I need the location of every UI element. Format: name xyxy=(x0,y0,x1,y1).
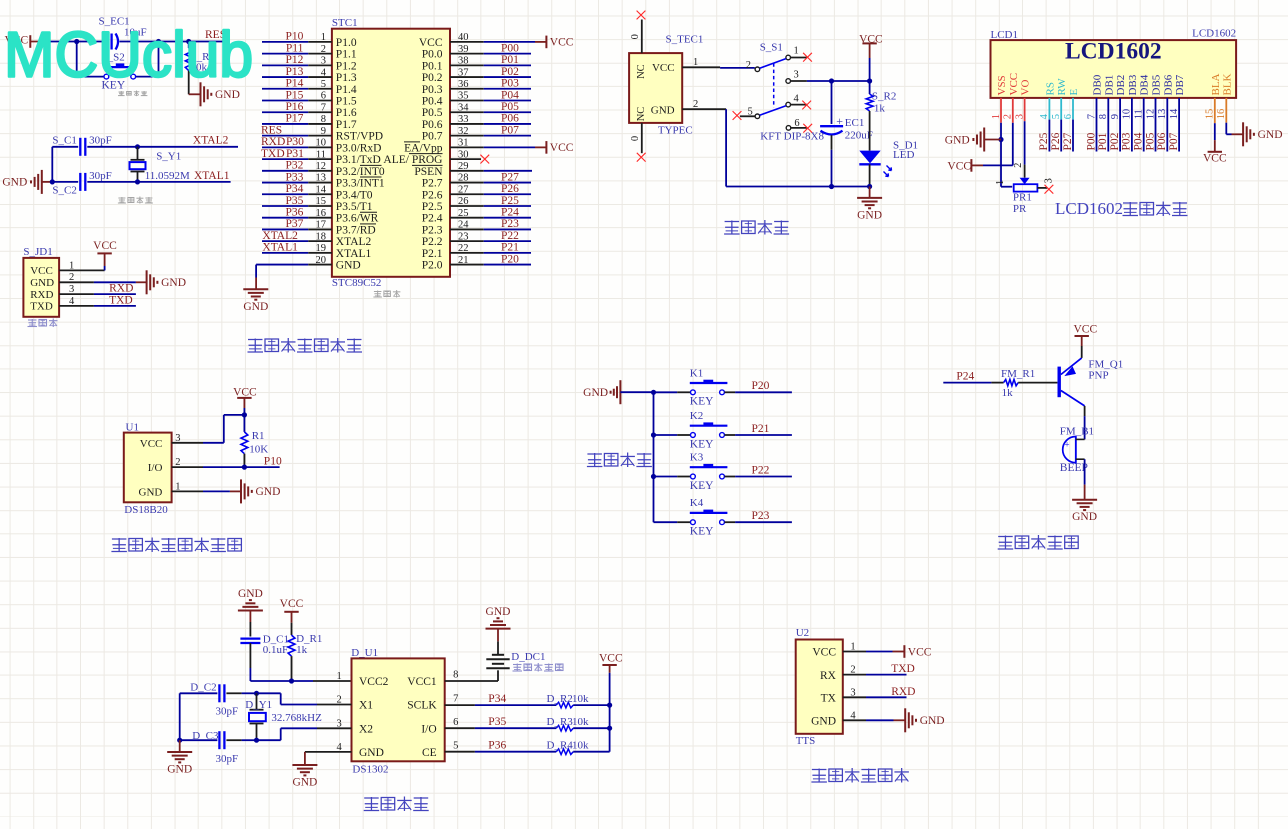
junction crystal bottom xyxy=(135,179,140,184)
svg-text:KEY: KEY xyxy=(690,480,714,492)
pushbutton S_S2 KEY xyxy=(103,66,136,68)
power port VCC (U2) xyxy=(903,645,905,658)
svg-text:K1: K1 xyxy=(690,367,703,379)
svg-text:VCC: VCC xyxy=(599,653,623,665)
no-ERC marker S_S1 pin1 xyxy=(803,53,812,62)
svg-text:P03: P03 xyxy=(501,78,519,90)
svg-text:VCC2: VCC2 xyxy=(359,676,389,688)
svg-text:P2.2: P2.2 xyxy=(422,236,443,248)
svg-text:P3.2/INT0: P3.2/INT0 xyxy=(336,166,385,178)
svg-text:GND: GND xyxy=(336,260,361,272)
svg-text:GND: GND xyxy=(945,134,970,146)
power port VCC (LCD backlight) xyxy=(1208,151,1222,153)
junction EC1 bottom xyxy=(829,184,834,189)
svg-text:6: 6 xyxy=(453,717,458,728)
svg-text:S_JD1: S_JD1 xyxy=(23,246,52,258)
svg-text:0: 0 xyxy=(630,136,641,141)
wire VCC pullup column xyxy=(609,673,611,752)
label 下载口 xyxy=(28,319,37,321)
wire P10 xyxy=(244,466,279,468)
svg-text:30pF: 30pF xyxy=(216,706,239,718)
svg-text:TXD: TXD xyxy=(30,301,53,313)
power port VCC (pin40) xyxy=(545,36,547,49)
svg-text:VCC: VCC xyxy=(550,37,574,49)
svg-text:32.768kHZ: 32.768kHZ xyxy=(271,712,322,724)
pin 4 S_S1 stub xyxy=(791,104,807,106)
wire GND rail xyxy=(725,109,727,186)
svg-text:GND: GND xyxy=(1072,511,1097,523)
svg-text:P02: P02 xyxy=(1109,132,1121,150)
ground GND (reset) xyxy=(200,82,202,106)
svg-text:GND: GND xyxy=(30,277,54,289)
svg-text:P0.5: P0.5 xyxy=(422,107,443,119)
svg-text:P07: P07 xyxy=(1168,132,1180,150)
junction R1 top xyxy=(242,412,247,417)
wire collector to buzzer xyxy=(1084,406,1086,416)
capacitor D_C1 0.1uF xyxy=(240,637,260,639)
svg-text:P2.6: P2.6 xyxy=(422,189,443,201)
pin 3 PR1 stub xyxy=(1037,187,1047,189)
svg-text:P3.3/INT1: P3.3/INT1 xyxy=(336,178,385,190)
svg-text:KFT DIP-8X8: KFT DIP-8X8 xyxy=(760,131,824,143)
svg-text:10k: 10k xyxy=(572,740,589,752)
pin 3 S_S1 xyxy=(786,79,791,84)
svg-text:RST/VPD: RST/VPD xyxy=(336,131,383,143)
svg-text:DS1302: DS1302 xyxy=(352,764,388,776)
wire crystal left vertical xyxy=(51,147,53,182)
svg-text:3: 3 xyxy=(794,69,799,80)
no-ERC marker pin30 xyxy=(480,155,489,164)
svg-text:4: 4 xyxy=(794,94,800,105)
section label 环境温度采集模块 xyxy=(112,538,127,540)
svg-text:K3: K3 xyxy=(690,452,704,464)
pushbutton K4 KEY xyxy=(654,521,678,523)
svg-text:S_C1: S_C1 xyxy=(52,135,76,147)
svg-text:I/O: I/O xyxy=(148,462,163,474)
svg-text:S_R2: S_R2 xyxy=(872,90,896,102)
svg-text:P03: P03 xyxy=(1121,132,1133,150)
svg-text:KEY: KEY xyxy=(690,526,714,538)
svg-text:1: 1 xyxy=(337,671,342,682)
wire LED to rail xyxy=(869,164,871,186)
section label 时钟电路 xyxy=(364,797,379,799)
svg-text:P3.4/T0: P3.4/T0 xyxy=(336,189,373,201)
svg-text:3: 3 xyxy=(337,718,342,729)
svg-text:P10: P10 xyxy=(264,456,282,468)
svg-text:P34: P34 xyxy=(285,183,303,195)
svg-text:DB2: DB2 xyxy=(1115,75,1127,96)
svg-text:GND: GND xyxy=(167,764,192,776)
pushbutton K1 KEY xyxy=(654,391,678,393)
no-ERC marker S_S1 pin5 xyxy=(733,111,742,120)
svg-text:P0.0: P0.0 xyxy=(422,49,443,61)
wire switch right branch xyxy=(158,42,160,77)
switch S_S1 pole A xyxy=(755,67,760,72)
svg-text:PSEN: PSEN xyxy=(414,166,443,178)
svg-text:2: 2 xyxy=(746,60,751,71)
wire LCD VSS xyxy=(1000,98,1002,123)
svg-text:GND: GND xyxy=(243,301,268,313)
svg-text:XTAL2: XTAL2 xyxy=(262,230,298,242)
svg-text:P02: P02 xyxy=(501,66,519,78)
svg-text:D_Y1: D_Y1 xyxy=(245,699,272,711)
svg-text:E: E xyxy=(1068,89,1080,96)
svg-text:P0.6: P0.6 xyxy=(422,119,443,131)
svg-text:RES: RES xyxy=(261,124,282,136)
svg-text:DB6: DB6 xyxy=(1162,74,1174,95)
junction VCC column xyxy=(867,78,872,83)
hidden comment text 单片机 xyxy=(374,291,382,293)
section label 语音输出模块 xyxy=(812,769,827,771)
svg-text:P04: P04 xyxy=(1133,132,1145,150)
svg-text:P22: P22 xyxy=(501,230,519,242)
svg-text:P01: P01 xyxy=(501,54,519,66)
svg-text:VCC: VCC xyxy=(1203,152,1227,164)
no-ERC marker S_S1 pin4 xyxy=(802,101,811,110)
svg-text:P26: P26 xyxy=(501,183,519,195)
section label 单片机最小系统 xyxy=(248,339,263,341)
svg-text:S_Y1: S_Y1 xyxy=(156,150,181,162)
svg-text:XTAL1: XTAL1 xyxy=(336,248,372,260)
svg-text:TX: TX xyxy=(821,693,837,705)
svg-text:P23: P23 xyxy=(752,510,770,522)
svg-text:NC: NC xyxy=(636,64,647,79)
svg-text:PR1: PR1 xyxy=(1013,192,1032,204)
svg-text:TTS: TTS xyxy=(796,735,816,747)
wire S_R2 to LED xyxy=(869,111,871,151)
svg-text:P3.6/WR: P3.6/WR xyxy=(336,213,379,225)
svg-text:S_TEC1: S_TEC1 xyxy=(666,34,704,46)
svg-text:VCC: VCC xyxy=(30,265,53,277)
svg-text:P36: P36 xyxy=(285,207,303,219)
no-ERC marker bottom xyxy=(637,153,646,162)
svg-text:DB3: DB3 xyxy=(1127,74,1139,95)
svg-text:P1.7: P1.7 xyxy=(336,119,357,131)
hidden comment text 晶振电路 xyxy=(118,197,125,199)
ground GND (D_C1 top) xyxy=(238,610,263,612)
svg-text:PR: PR xyxy=(1013,203,1027,215)
svg-text:0.1uF: 0.1uF xyxy=(263,644,288,656)
overline RD xyxy=(360,223,376,225)
svg-text:X1: X1 xyxy=(359,700,373,712)
wire K2 to P21 xyxy=(725,434,736,436)
svg-text:P31: P31 xyxy=(286,148,304,160)
svg-text:CE: CE xyxy=(422,747,437,759)
label 纽扣电池座 xyxy=(513,664,522,666)
junction key bus K1 xyxy=(651,390,656,395)
capacitor S_C2 30pF xyxy=(52,181,78,183)
wire X2 to chip xyxy=(257,739,281,741)
svg-text:K2: K2 xyxy=(690,410,703,422)
overline WR xyxy=(360,211,377,213)
svg-text:30pF: 30pF xyxy=(89,170,112,182)
svg-text:P35: P35 xyxy=(285,195,303,207)
svg-text:XTAL2: XTAL2 xyxy=(336,236,372,248)
junction at switch right xyxy=(156,39,161,44)
ground GND (D_U1 pin4) xyxy=(304,752,306,765)
svg-text:P23: P23 xyxy=(501,218,519,230)
svg-text:2: 2 xyxy=(693,99,698,110)
svg-text:RW: RW xyxy=(1056,78,1068,96)
pushbutton K2 KEY xyxy=(654,434,678,436)
svg-text:P21: P21 xyxy=(501,242,519,254)
svg-text:1: 1 xyxy=(794,45,799,56)
svg-text:P0.4: P0.4 xyxy=(422,96,443,108)
svg-text:GND: GND xyxy=(811,716,836,728)
svg-text:VCC: VCC xyxy=(1008,73,1020,96)
no-ERC marker top xyxy=(637,11,646,20)
svg-text:P14: P14 xyxy=(285,78,303,90)
resistor FM_R1 1k xyxy=(1004,379,1019,385)
led S_D1 LED xyxy=(859,151,880,164)
svg-text:BLA: BLA xyxy=(1210,73,1222,95)
junction at switch left xyxy=(74,39,79,44)
ground GND (power circuit) xyxy=(869,187,871,198)
svg-text:DB1: DB1 xyxy=(1103,75,1115,96)
svg-text:VCC: VCC xyxy=(652,62,675,74)
wire pin20 to GND xyxy=(255,265,257,278)
svg-text:VCC: VCC xyxy=(908,646,932,658)
svg-text:VCC: VCC xyxy=(1073,324,1097,336)
svg-text:P27: P27 xyxy=(501,171,519,183)
svg-text:P13: P13 xyxy=(285,66,303,78)
svg-text:P2.3: P2.3 xyxy=(422,224,443,236)
wire TYPEC pin1 to switch xyxy=(720,67,755,69)
svg-text:XTAL1: XTAL1 xyxy=(262,242,298,254)
svg-text:P0.3: P0.3 xyxy=(422,84,443,96)
svg-text:FM_R1: FM_R1 xyxy=(1001,368,1035,380)
svg-text:P22: P22 xyxy=(752,464,770,476)
wire VCC port to LCD VCC xyxy=(983,164,1013,166)
overline EA xyxy=(404,141,420,143)
svg-text:X2: X2 xyxy=(359,723,373,735)
svg-text:2: 2 xyxy=(1013,163,1024,168)
ground GND (S_JD1) xyxy=(136,281,147,283)
pin 6 S_S1 xyxy=(786,126,791,131)
svg-text:MCUclub: MCUclub xyxy=(4,19,253,91)
resistor R1 10K xyxy=(243,415,245,432)
battery D_DC1 xyxy=(497,670,499,681)
wire key bus xyxy=(653,392,655,522)
svg-text:P05: P05 xyxy=(1144,132,1156,150)
ground GND (buzzer) xyxy=(1072,499,1097,501)
svg-text:P37: P37 xyxy=(285,218,303,230)
capacitor EC1 220uF xyxy=(831,81,833,124)
svg-text:EC1: EC1 xyxy=(845,117,865,129)
svg-text:P2.7: P2.7 xyxy=(422,178,443,190)
svg-text:GND: GND xyxy=(1258,129,1283,141)
svg-text:P00: P00 xyxy=(1085,132,1097,150)
wire S_C1 to XTAL2 xyxy=(87,146,238,148)
transistor FM_Q1 PNP xyxy=(1057,367,1060,398)
svg-text:LCD1602: LCD1602 xyxy=(1055,199,1123,218)
svg-text:D_C2: D_C2 xyxy=(190,682,216,694)
svg-text:DB0: DB0 xyxy=(1092,74,1104,95)
svg-text:P25: P25 xyxy=(501,195,519,207)
wire LCD BLK xyxy=(1225,98,1227,123)
switch S_S1 gang link xyxy=(773,63,775,107)
svg-text:KEY: KEY xyxy=(690,438,714,450)
svg-text:TYPEC: TYPEC xyxy=(658,125,693,137)
svg-text:P05: P05 xyxy=(501,101,519,113)
led arrows xyxy=(887,166,892,171)
svg-text:11.0592M: 11.0592M xyxy=(145,170,190,182)
junction key bus K3 xyxy=(651,474,656,479)
svg-text:D_DC1: D_DC1 xyxy=(511,651,545,663)
svg-text:P35: P35 xyxy=(488,716,506,728)
svg-text:P24: P24 xyxy=(501,207,519,219)
no-ERC marker PR1 pin3 xyxy=(1045,185,1054,194)
junction crystal gnd xyxy=(50,179,55,184)
overline PROG xyxy=(409,153,443,155)
svg-text:P16: P16 xyxy=(285,101,303,113)
wire S_R1 to GND xyxy=(188,71,190,95)
pin 1 S_S1 stub xyxy=(791,57,807,59)
svg-text:D_R4: D_R4 xyxy=(547,740,574,752)
ground GND (LCD left) xyxy=(983,128,985,152)
svg-text:GND: GND xyxy=(2,177,27,189)
no-ERC marker S_S1 pin6 xyxy=(803,124,812,133)
svg-text:GND: GND xyxy=(486,606,511,618)
svg-text:R1: R1 xyxy=(252,430,265,442)
svg-text:P1.6: P1.6 xyxy=(336,107,357,119)
svg-text:P3.1/TxD: P3.1/TxD xyxy=(336,154,381,166)
svg-text:P15: P15 xyxy=(285,89,303,101)
ground GND (MCU) xyxy=(243,288,268,290)
svg-text:DB5: DB5 xyxy=(1151,74,1163,95)
svg-text:GND: GND xyxy=(292,777,317,789)
svg-text:P36: P36 xyxy=(488,740,506,752)
potentiometer PR1 PR xyxy=(1020,178,1030,185)
wire K1 to P20 xyxy=(725,391,736,393)
svg-text:D_R2: D_R2 xyxy=(547,693,573,705)
svg-text:P34: P34 xyxy=(488,693,506,705)
svg-text:VCC: VCC xyxy=(947,160,971,172)
svg-text:I/O: I/O xyxy=(421,723,436,735)
junction key bus K2 xyxy=(651,432,656,437)
svg-text:VO: VO xyxy=(1020,80,1032,96)
junction X1 xyxy=(254,691,259,696)
svg-text:RXD: RXD xyxy=(891,686,915,698)
wire S_C2 to XTAL1 xyxy=(87,181,230,183)
crystal S_Y1 11.0592M xyxy=(137,147,139,160)
wire K4 to P23 xyxy=(725,521,736,523)
svg-text:VCC: VCC xyxy=(233,387,257,399)
svg-text:VCC: VCC xyxy=(812,647,836,659)
ground GND (U2) xyxy=(904,708,906,732)
svg-text:P27: P27 xyxy=(1062,132,1074,150)
svg-text:RXD: RXD xyxy=(109,283,133,295)
wire buzzer to GND xyxy=(1084,459,1086,484)
svg-text:P30: P30 xyxy=(286,136,304,148)
wire VCC2 rail xyxy=(250,680,313,682)
ground GND (D_C3) xyxy=(179,740,181,752)
svg-text:VCC: VCC xyxy=(140,438,163,450)
wire cap left vertical xyxy=(179,693,181,740)
svg-text:LCD1602: LCD1602 xyxy=(1192,28,1236,40)
svg-text:10k: 10k xyxy=(572,716,589,728)
wire S_EC1 to RES xyxy=(120,41,231,43)
svg-text:TXD: TXD xyxy=(261,148,285,160)
svg-text:GND: GND xyxy=(857,209,882,221)
svg-text:VCC: VCC xyxy=(419,37,443,49)
wire emitter to VCC xyxy=(1081,346,1083,358)
junction R1 bottom xyxy=(242,465,247,470)
svg-text:P3.0/RxD: P3.0/RxD xyxy=(336,142,382,154)
svg-text:+: + xyxy=(1065,440,1070,450)
junction crystal top xyxy=(135,144,140,149)
svg-text:NC: NC xyxy=(636,107,647,122)
ground GND (LCD right) xyxy=(1232,133,1244,135)
svg-text:EA/Vpp: EA/Vpp xyxy=(404,142,443,154)
svg-text:P32: P32 xyxy=(285,160,303,172)
svg-text:30pF: 30pF xyxy=(216,753,239,765)
svg-text:P0.2: P0.2 xyxy=(422,72,443,84)
overline INT1 xyxy=(360,176,382,178)
junction X2 xyxy=(254,738,259,743)
svg-text:XTAL1: XTAL1 xyxy=(194,170,230,182)
svg-text:ALE/ PROG: ALE/ PROG xyxy=(383,154,442,166)
ground GND (crystal) xyxy=(41,170,43,194)
svg-text:FM_B1: FM_B1 xyxy=(1060,426,1094,438)
svg-text:D_U1: D_U1 xyxy=(351,647,378,659)
svg-text:U2: U2 xyxy=(796,627,809,639)
pin 0 top S_TEC1 xyxy=(641,20,643,54)
svg-text:SCLK: SCLK xyxy=(407,700,437,712)
section label 按键电路 xyxy=(587,453,602,455)
junction LED bottom xyxy=(867,184,872,189)
hidden comment text 按键复位 xyxy=(119,91,125,93)
svg-text:P1.2: P1.2 xyxy=(336,60,357,72)
svg-text:P06: P06 xyxy=(501,113,519,125)
svg-text:VCC: VCC xyxy=(280,598,304,610)
svg-text:DB4: DB4 xyxy=(1139,74,1151,95)
svg-text:P0.7: P0.7 xyxy=(422,131,443,143)
svg-text:1k: 1k xyxy=(296,644,308,656)
svg-text:GND: GND xyxy=(651,105,675,117)
wire FM_R1 to base xyxy=(1018,382,1057,384)
svg-text:VCC: VCC xyxy=(93,240,117,252)
svg-text:7: 7 xyxy=(453,694,458,705)
wire LCD VCC xyxy=(1012,98,1014,123)
svg-text:P0.1: P0.1 xyxy=(422,60,443,72)
svg-text:STC89C52: STC89C52 xyxy=(332,277,382,289)
svg-text:30pF: 30pF xyxy=(89,135,112,147)
overline PSEN xyxy=(412,164,443,166)
wire LCD BLA xyxy=(1214,98,1216,123)
svg-text:GND: GND xyxy=(583,387,608,399)
svg-text:VSS: VSS xyxy=(996,75,1008,95)
svg-text:BLK: BLK xyxy=(1221,73,1233,95)
pin 5 S_S1 stub xyxy=(740,115,755,117)
svg-text:PNP: PNP xyxy=(1088,369,1108,381)
svg-text:P12: P12 xyxy=(285,54,303,66)
junction at S_R1 xyxy=(186,39,191,44)
ground GND (DS18B20) xyxy=(240,479,242,503)
svg-text:DS18B20: DS18B20 xyxy=(124,504,168,516)
svg-text:VCC1: VCC1 xyxy=(407,676,437,688)
svg-text:RS: RS xyxy=(1044,82,1056,95)
svg-text:S_S1: S_S1 xyxy=(760,42,783,54)
junction VCC2 xyxy=(289,678,294,683)
svg-text:P00: P00 xyxy=(501,42,519,54)
svg-text:P20: P20 xyxy=(501,253,519,265)
svg-text:RXD: RXD xyxy=(261,136,285,148)
wire VSS to PR1 pin1 xyxy=(1001,186,1012,188)
svg-text:P1.0: P1.0 xyxy=(336,37,357,49)
svg-text:P11: P11 xyxy=(286,42,304,54)
wires LCD RS RW E xyxy=(1048,98,1050,120)
